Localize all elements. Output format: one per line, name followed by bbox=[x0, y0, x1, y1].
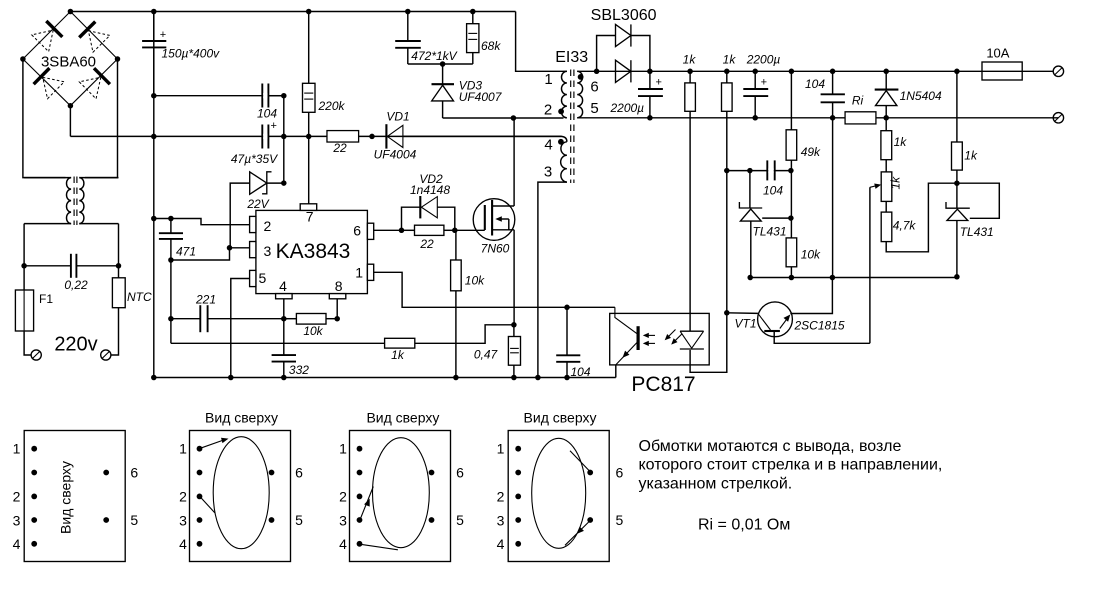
node bridge left bbox=[20, 56, 26, 62]
wire 471 to pin3 node bbox=[171, 248, 230, 260]
svg-text:22: 22 bbox=[419, 237, 434, 251]
wire pin4 down bbox=[283, 299, 285, 319]
winding diagram box4 bbox=[508, 409, 609, 561]
wire 104 to node bbox=[268, 95, 283, 97]
capacitor 0,22 bbox=[64, 254, 88, 292]
svg-text:6: 6 bbox=[590, 79, 598, 96]
svg-text:220v: 220v bbox=[54, 334, 97, 356]
box2 winding start arrow bbox=[201, 438, 229, 448]
svg-text:1k: 1k bbox=[889, 176, 903, 190]
node 49k bottom bbox=[788, 168, 794, 174]
MOSFET 7N60 bbox=[473, 199, 515, 256]
label VD1 wire joins pin 4 bbox=[403, 135, 562, 137]
node X-cap left bbox=[21, 263, 27, 269]
diode 1N5404 bbox=[875, 71, 942, 118]
svg-text:SBL3060: SBL3060 bbox=[591, 7, 657, 24]
node 47u right bbox=[281, 134, 287, 140]
svg-text:4: 4 bbox=[13, 536, 21, 552]
wire +V rail bbox=[577, 70, 957, 72]
wire pin2 bbox=[154, 219, 250, 225]
svg-text:6: 6 bbox=[456, 465, 464, 481]
node 472 top bbox=[405, 9, 411, 15]
node 1N5404 top bbox=[883, 69, 889, 75]
svg-text:220k: 220k bbox=[318, 99, 346, 113]
PC817 led light arrow 2 bbox=[671, 334, 682, 345]
IC pin1 box bbox=[355, 264, 373, 280]
node opto base bbox=[724, 310, 730, 316]
note text line1 bbox=[639, 438, 902, 455]
resistor 10k pin4-pin8 bbox=[296, 314, 326, 339]
resistor 49k bbox=[786, 71, 821, 218]
wire NTC to terminal bbox=[111, 308, 119, 355]
svg-text:2: 2 bbox=[13, 488, 21, 504]
svg-text:4: 4 bbox=[279, 278, 287, 294]
wire X-cap row bbox=[24, 265, 118, 267]
svg-text:Обмотки мотаются с вывода, воз: Обмотки мотаются с вывода, возле bbox=[639, 438, 902, 455]
node 471 bottom bbox=[168, 257, 174, 263]
svg-text:1k: 1k bbox=[894, 135, 908, 149]
capacitor 2200µ first bbox=[609, 71, 662, 118]
wire 10k right bbox=[326, 318, 337, 320]
wire left bus vertical x153.8 bbox=[153, 12, 155, 378]
svg-text:EI33: EI33 bbox=[555, 49, 588, 66]
svg-text:1n4148: 1n4148 bbox=[410, 183, 450, 197]
svg-text:KA3843: KA3843 bbox=[276, 240, 351, 263]
box1 labels bbox=[13, 441, 139, 552]
wire pin7 label none bbox=[308, 135, 310, 137]
node TL431L ref bbox=[788, 215, 794, 221]
wire 4,7k loop bbox=[886, 183, 957, 252]
node SBL left bbox=[594, 69, 600, 75]
resistor 220k bbox=[303, 12, 346, 204]
svg-text:+: + bbox=[270, 120, 276, 132]
node TL431L anode gnd bbox=[747, 275, 753, 281]
node 1k2 top bbox=[724, 69, 730, 75]
transformer EI33 primary bbox=[561, 71, 566, 118]
svg-text:10k: 10k bbox=[303, 324, 323, 338]
svg-text:0,22: 0,22 bbox=[64, 278, 88, 292]
svg-text:471: 471 bbox=[176, 245, 196, 259]
node pin6 net bbox=[399, 228, 405, 234]
svg-text:которого стоит стрелка и в нап: которого стоит стрелка и в направлении, bbox=[639, 457, 943, 474]
node 10kfb gnd bbox=[789, 275, 795, 281]
svg-text:10A: 10A bbox=[986, 46, 1009, 61]
node TL431L top bbox=[747, 168, 753, 174]
node SBL right bbox=[647, 69, 653, 75]
wire zener cathode to node bbox=[267, 182, 284, 184]
svg-text:4: 4 bbox=[179, 536, 187, 552]
diode VD1 UF4004 bbox=[374, 110, 417, 162]
svg-text:0,47: 0,47 bbox=[474, 348, 499, 362]
svg-text:104: 104 bbox=[805, 77, 825, 91]
svg-text:Вид сверху: Вид сверху bbox=[524, 409, 597, 425]
svg-text:6: 6 bbox=[616, 465, 624, 481]
svg-text:10k: 10k bbox=[801, 248, 821, 262]
diode VD2 1n4148 bbox=[402, 172, 455, 230]
potentiometer 1k bbox=[881, 160, 902, 202]
node 220k bus neg bbox=[306, 134, 312, 140]
svg-text:VD1: VD1 bbox=[386, 110, 409, 124]
fuse F1 bbox=[15, 290, 53, 331]
node 104out top bbox=[830, 69, 836, 75]
wire snubber bottom bbox=[408, 63, 473, 65]
label xfmr 1 bbox=[544, 71, 552, 88]
resistor 1k second bbox=[722, 53, 737, 171]
svg-text:VT1: VT1 bbox=[734, 317, 756, 331]
svg-text:4,7k: 4,7k bbox=[893, 219, 917, 233]
phase dot primary bbox=[558, 109, 564, 115]
svg-text:4: 4 bbox=[497, 536, 505, 552]
resistor 22 gate bbox=[402, 225, 455, 251]
wire choke right down bbox=[118, 224, 120, 278]
svg-text:47µ*35V: 47µ*35V bbox=[231, 152, 278, 166]
node bridge bottom bbox=[68, 103, 74, 109]
node 104opto gnd bbox=[564, 375, 570, 381]
svg-text:104: 104 bbox=[571, 365, 591, 379]
svg-text:3: 3 bbox=[13, 512, 21, 528]
node bridge right bbox=[115, 56, 121, 62]
wire 10k left bbox=[284, 318, 297, 320]
svg-text:104: 104 bbox=[257, 106, 277, 120]
wire gate to mosfet bbox=[455, 229, 485, 231]
wire x283.8 vertical bbox=[283, 96, 285, 183]
node 471 top bbox=[168, 216, 174, 222]
PC817 photon arrow 1 bbox=[643, 333, 655, 338]
wire bridge bottom to bus negative bbox=[69, 106, 71, 137]
box4 labels bbox=[497, 441, 624, 552]
wire drain up bbox=[513, 118, 515, 206]
node x153.8 gnd bbox=[151, 375, 157, 381]
winding diagram box3 bbox=[350, 409, 451, 561]
box3 winding arrow bbox=[360, 487, 373, 520]
svg-text:2: 2 bbox=[544, 102, 552, 119]
node right branch top bbox=[954, 69, 960, 75]
wire pin5 to ground bbox=[231, 279, 250, 378]
svg-text:1k: 1k bbox=[964, 149, 978, 163]
svg-text:221: 221 bbox=[195, 292, 216, 306]
node 332 gnd bbox=[281, 375, 287, 381]
IC KA3843 body bbox=[256, 210, 368, 293]
common-mode choke left winding bbox=[24, 178, 71, 224]
svg-text:2: 2 bbox=[264, 218, 272, 234]
node 1k1 top bbox=[687, 69, 693, 75]
resistor 10k gate bbox=[451, 230, 486, 377]
resistor 0,47 bbox=[474, 325, 521, 378]
svg-text:+: + bbox=[160, 29, 166, 41]
svg-text:Вид сверху: Вид сверху bbox=[205, 409, 278, 425]
node pin2 net x153.8 bbox=[151, 216, 157, 222]
node 150u top bbox=[151, 9, 157, 15]
wire zener anode bbox=[230, 183, 250, 248]
IC pin7 box bbox=[300, 204, 317, 225]
svg-text:PC817: PC817 bbox=[631, 373, 695, 396]
wire F1 to terminal bbox=[24, 331, 31, 355]
IC pin6 box bbox=[353, 223, 373, 240]
node 104out bottom bbox=[830, 115, 836, 121]
zener diode 22V bbox=[246, 172, 271, 211]
wire 471 branch down bbox=[170, 260, 172, 343]
svg-text:TL431: TL431 bbox=[753, 225, 787, 239]
svg-text:5: 5 bbox=[590, 100, 598, 117]
IC pin4 box bbox=[276, 278, 293, 299]
transformer core bbox=[571, 70, 574, 184]
mask 10A bbox=[0, 0, 1, 1]
wire pin3 bbox=[230, 247, 250, 249]
choke core bbox=[74, 177, 77, 226]
svg-text:2SC1815: 2SC1815 bbox=[794, 319, 845, 333]
wire pin6 bbox=[374, 229, 402, 231]
bridge diode top-left bbox=[32, 21, 63, 52]
phase dot aux bbox=[558, 139, 564, 145]
node pin1 104 bbox=[564, 305, 570, 311]
wire pin1 to opto bbox=[374, 272, 615, 307]
winding diagram box2 bbox=[190, 409, 291, 561]
svg-text:5: 5 bbox=[130, 512, 138, 528]
capacitor 47µ*35V bbox=[231, 120, 278, 166]
svg-text:3: 3 bbox=[264, 243, 272, 259]
svg-text:+: + bbox=[655, 76, 661, 88]
svg-text:2200µ: 2200µ bbox=[609, 101, 644, 115]
thermistor NTC bbox=[112, 278, 152, 308]
capacitor 104 opto bbox=[556, 307, 591, 379]
svg-text:10k: 10k bbox=[465, 274, 485, 288]
svg-text:6: 6 bbox=[295, 465, 303, 481]
svg-text:3: 3 bbox=[497, 512, 505, 528]
label xfmr 6 bbox=[590, 79, 598, 96]
wire right 1k net bbox=[956, 71, 958, 142]
capacitor 104 out bbox=[805, 71, 845, 118]
node pin5 gnd bbox=[228, 375, 234, 381]
node 1N5404 bottom bbox=[883, 115, 889, 121]
svg-text:1: 1 bbox=[544, 71, 552, 88]
label PC817 bbox=[631, 373, 695, 396]
bridge diode top-right bbox=[79, 22, 110, 53]
svg-text:TL431: TL431 bbox=[960, 225, 994, 239]
svg-text:Вид сверху: Вид сверху bbox=[366, 409, 439, 425]
svg-text:3: 3 bbox=[544, 164, 552, 181]
PC817 collector entry bbox=[615, 307, 637, 333]
node 047 gnd bbox=[511, 375, 517, 381]
node snubber VD3 bbox=[440, 61, 446, 67]
cap gap masks bbox=[263, 93, 267, 139]
transformer EI33 aux bbox=[561, 142, 567, 182]
svg-text:104: 104 bbox=[763, 184, 783, 198]
node gate right bbox=[452, 228, 458, 234]
svg-text:1k: 1k bbox=[723, 53, 737, 67]
wire primary ground rail bbox=[154, 377, 616, 379]
capacitor 471 bbox=[159, 219, 196, 261]
svg-text:1: 1 bbox=[339, 441, 347, 457]
wire bridge left down to choke bbox=[23, 59, 66, 178]
wire rail y95.7 (150u bottom) bbox=[154, 95, 284, 97]
wire 1k to sense node bbox=[415, 325, 514, 344]
resistor 1k first bbox=[683, 53, 697, 331]
svg-text:6: 6 bbox=[353, 223, 361, 239]
wire minus rail bbox=[577, 117, 1058, 119]
node pin4 net bbox=[281, 316, 287, 322]
wire choke left down bbox=[23, 224, 25, 290]
TL431 right bbox=[946, 183, 994, 277]
note Ri bbox=[698, 517, 790, 534]
resistor 68k bbox=[467, 12, 502, 65]
node bus neg x153.8 bbox=[151, 134, 157, 140]
wire aux pin4 curl bbox=[562, 136, 567, 141]
pot wiper from VT1 bbox=[870, 183, 881, 343]
svg-text:472*1kV: 472*1kV bbox=[411, 49, 457, 63]
common-mode choke right winding bbox=[79, 178, 118, 224]
svg-text:8: 8 bbox=[335, 278, 343, 294]
rectifier SBL3060 upper diode bbox=[597, 24, 650, 71]
svg-text:2: 2 bbox=[179, 488, 187, 504]
wire bus negative rail y136 bbox=[70, 135, 561, 137]
node after 22 bbox=[369, 134, 375, 140]
TL431R ref loop bbox=[957, 183, 999, 218]
note text line3 bbox=[639, 475, 793, 492]
svg-text:NTC: NTC bbox=[127, 290, 152, 304]
svg-text:332: 332 bbox=[289, 363, 309, 377]
svg-text:5: 5 bbox=[616, 512, 624, 528]
label EI33 bbox=[555, 49, 588, 66]
node aux gnd bbox=[535, 375, 541, 381]
mask Ri bbox=[846, 113, 875, 124]
node 104fb left bbox=[724, 168, 730, 174]
resistor 10k fb bbox=[786, 218, 821, 277]
phase dot secondary bbox=[578, 74, 584, 80]
node 2200b bottom bbox=[752, 115, 758, 121]
node 220k top bbox=[306, 9, 312, 15]
capacitor 332 bbox=[272, 319, 310, 378]
svg-text:Ri = 0,01 Ом: Ri = 0,01 Ом bbox=[698, 517, 790, 534]
node 150u bottom bbox=[151, 93, 157, 99]
svg-text:5: 5 bbox=[259, 270, 267, 286]
PC817 LED bbox=[680, 331, 704, 349]
terminal 220v line bbox=[31, 350, 41, 360]
wire pin1 stub bbox=[564, 70, 567, 72]
svg-text:4: 4 bbox=[339, 536, 347, 552]
capacitor 221 bbox=[171, 292, 284, 332]
node 221 left bbox=[168, 316, 174, 322]
svg-text:1: 1 bbox=[355, 265, 363, 281]
resistor 1k sense bbox=[385, 338, 415, 362]
svg-text:1: 1 bbox=[179, 441, 187, 457]
wire bridge right down to choke bbox=[85, 59, 118, 178]
IC pin5 box bbox=[250, 270, 267, 287]
capacitor 2200µ second bbox=[743, 53, 780, 118]
label xfmr 4 bbox=[544, 137, 552, 154]
svg-text:68k: 68k bbox=[481, 39, 501, 53]
svg-text:3: 3 bbox=[339, 512, 347, 528]
box3 labels bbox=[339, 441, 464, 552]
diode VD3 UF4007 bbox=[432, 64, 503, 118]
PC817 base bar bbox=[636, 326, 639, 350]
wire top +310V rail bbox=[70, 11, 515, 13]
wire source down bbox=[513, 230, 515, 325]
node VT1e rail bbox=[830, 275, 836, 281]
wire aux pin3 out bbox=[538, 182, 567, 377]
wire drain node to xfmr pin2 bbox=[513, 117, 563, 119]
node 2200a bottom bbox=[647, 115, 653, 121]
svg-text:3SBA60: 3SBA60 bbox=[41, 54, 96, 71]
svg-text:UF4007: UF4007 bbox=[459, 90, 503, 104]
rectifier SBL3060 lower diode bbox=[616, 60, 631, 82]
svg-text:F1: F1 bbox=[39, 292, 53, 306]
note text line2 bbox=[639, 457, 943, 474]
resistor 1k column bbox=[881, 118, 907, 160]
resistor 22 left bbox=[327, 131, 359, 155]
svg-text:7N60: 7N60 bbox=[481, 242, 510, 256]
label 3SBA60 bbox=[41, 54, 96, 71]
svg-text:1N5404: 1N5404 bbox=[900, 89, 942, 103]
label 220v bbox=[54, 334, 97, 356]
svg-text:1: 1 bbox=[13, 441, 21, 457]
svg-text:49k: 49k bbox=[801, 145, 821, 159]
PC817 photon arrow 2 bbox=[643, 341, 655, 346]
node TL431R anode bbox=[954, 274, 960, 280]
wire 104fb row bbox=[727, 170, 791, 172]
svg-text:22: 22 bbox=[332, 141, 347, 155]
cap mask 22res bbox=[328, 131, 358, 141]
node pin8 net bbox=[334, 316, 340, 322]
svg-text:2: 2 bbox=[497, 488, 505, 504]
svg-text:+: + bbox=[761, 76, 767, 88]
node zener cathode bbox=[281, 180, 287, 186]
svg-text:7: 7 bbox=[306, 209, 314, 225]
svg-text:1k: 1k bbox=[391, 348, 405, 362]
svg-text:Ri: Ri bbox=[852, 94, 864, 108]
node X-cap right bbox=[116, 263, 122, 269]
wire pin8 down bbox=[336, 299, 338, 319]
svg-text:1k: 1k bbox=[683, 53, 697, 67]
resistor 4,7k bbox=[881, 201, 916, 241]
box3 winding end line bbox=[361, 544, 398, 550]
label xfmr 3 bbox=[544, 164, 552, 181]
wire 1k row bbox=[171, 342, 385, 344]
node 49k top rail bbox=[789, 69, 795, 75]
svg-text:6: 6 bbox=[130, 465, 138, 481]
node sense bbox=[511, 322, 517, 328]
node 104 right bbox=[281, 93, 287, 99]
transformer EI33 secondary bbox=[577, 71, 582, 118]
bridge diode bottom-right bbox=[79, 68, 110, 99]
wire top rail to xfmr pin1 bbox=[516, 12, 564, 72]
transistor VT1 2SC1815 bbox=[727, 278, 870, 344]
PC817 led light arrow 1 bbox=[665, 330, 676, 341]
node 68k top bbox=[470, 9, 476, 15]
wire VD3 to drain node bbox=[443, 117, 514, 119]
label xfmr 2 bbox=[544, 102, 552, 119]
IC pin8 box bbox=[329, 278, 346, 299]
svg-text:UF4004: UF4004 bbox=[374, 148, 417, 162]
svg-text:150µ*400v: 150µ*400v bbox=[162, 47, 221, 61]
TL431 left bbox=[739, 171, 791, 278]
node 10kgate gnd bbox=[453, 375, 459, 381]
capacitor 472*1kV bbox=[395, 12, 457, 65]
capacitor 150µ*400v bbox=[142, 12, 220, 96]
winding diagram box1 bbox=[24, 431, 125, 562]
svg-text:3: 3 bbox=[179, 512, 187, 528]
node reg node bbox=[954, 180, 960, 186]
node bridge top bbox=[68, 9, 74, 15]
fuse 10A bbox=[957, 46, 1053, 81]
svg-text:5: 5 bbox=[456, 512, 464, 528]
svg-text:4: 4 bbox=[544, 137, 552, 154]
node drain bbox=[511, 115, 517, 121]
IC pin3 box bbox=[250, 242, 272, 260]
resistor Ri bbox=[845, 94, 876, 124]
bridge rectifier 3SBA60 diamond bbox=[23, 12, 118, 106]
wire vt1 rail bbox=[750, 277, 957, 279]
label SBL3060 bbox=[591, 7, 657, 24]
